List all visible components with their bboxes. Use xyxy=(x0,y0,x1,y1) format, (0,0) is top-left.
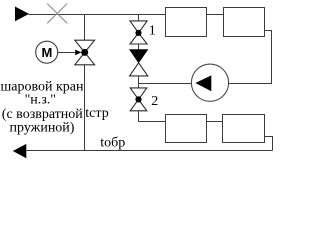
wire: connector between bottom radiators xyxy=(207,121,223,123)
wire: connector between top radiators xyxy=(207,14,224,16)
valve 2 xyxy=(130,88,147,111)
return line (bottom) xyxy=(26,150,272,152)
wire: check valve to valve2 xyxy=(138,76,140,88)
return outlet arrow xyxy=(13,144,26,158)
svg-text:M: M xyxy=(41,45,52,60)
wire: valve2 down and to bottom radiators xyxy=(139,111,166,122)
wire: riser x=138 top segment xyxy=(138,15,140,21)
check valve xyxy=(130,50,148,63)
svg-text:tобр: tобр xyxy=(100,136,125,151)
motor M xyxy=(36,41,58,63)
supply inlet arrow xyxy=(15,7,29,22)
radiator bottom 2 xyxy=(223,115,265,143)
svg-text:2: 2 xyxy=(151,94,158,109)
wire: riser below motor valve to return xyxy=(84,65,86,151)
radiator top 2 xyxy=(224,8,265,37)
pump xyxy=(191,64,228,101)
svg-text:tстр: tстр xyxy=(85,106,108,121)
radiator top 1 xyxy=(166,8,207,37)
valve 1 xyxy=(130,21,147,44)
svg-text:"н.з.": "н.з." xyxy=(25,93,56,108)
shut-off valve X xyxy=(47,4,67,24)
radiator bottom 1 xyxy=(166,115,207,143)
wire: pump outlet to right riser up to radiator 2 xyxy=(229,31,272,84)
wire: bottom radiator outlet to return line xyxy=(265,137,273,151)
supply line (top) xyxy=(29,14,166,16)
actuator link arrow xyxy=(58,50,82,56)
wire: pump branch from riser xyxy=(139,83,192,85)
wire: riser from supply to motor valve xyxy=(84,15,86,41)
motor valve (шаровой кран Н.З.) xyxy=(75,40,95,65)
wire: between valve1 and check valve xyxy=(138,44,140,50)
svg-text:1: 1 xyxy=(149,24,156,39)
svg-text:пружиной): пружиной) xyxy=(10,121,75,136)
